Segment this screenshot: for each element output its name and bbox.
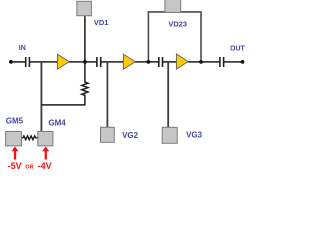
capacitor C3: [159, 57, 163, 67]
svg-text:GM5: GM5: [6, 117, 24, 126]
junction after U3: [199, 60, 203, 64]
wire U2 to C3: [135, 61, 158, 63]
amplifier U2: [123, 54, 135, 69]
pad GM4: [38, 132, 53, 146]
terminal dot IN: [9, 60, 13, 64]
wire C1 to U1: [30, 61, 58, 63]
arrow -5V supply: [12, 147, 19, 160]
svg-text:VD1: VD1: [94, 18, 109, 27]
svg-text:IN: IN: [19, 45, 26, 52]
pad VD1: [77, 1, 92, 15]
resistor R2 (between GM5 and GM4): [21, 136, 38, 140]
wire C4 to OUT: [224, 61, 243, 63]
amplifier U3: [176, 54, 188, 69]
svg-text:VD23: VD23: [168, 19, 187, 28]
svg-text:GM4: GM4: [48, 119, 66, 128]
junction after U2: [147, 60, 151, 64]
wire IN to C1: [11, 61, 25, 63]
pad VD23: [165, 0, 181, 12]
wire U1 to C2: [69, 61, 96, 63]
junction after U1: [83, 60, 87, 64]
capacitor C2: [97, 57, 101, 67]
svg-text:OR: OR: [25, 165, 33, 171]
pad VG3: [162, 127, 177, 143]
wire VG2 drop: [106, 62, 108, 127]
capacitor C1: [26, 57, 30, 67]
capacitor C4: [220, 57, 224, 67]
wire VD1 stem: [84, 16, 86, 62]
resistor R1 (drain-gate feedback): [41, 62, 88, 105]
wire VG3 drop: [167, 62, 169, 127]
wire U3 to C4: [188, 61, 219, 63]
svg-text:VG3: VG3: [186, 131, 203, 140]
pad GM5: [6, 132, 22, 146]
amplifier U1: [57, 54, 69, 69]
wire C3 to U3: [163, 61, 177, 63]
svg-text:-5V: -5V: [8, 161, 22, 171]
wire gate-bias drop to GM4: [40, 62, 42, 131]
terminal dot OUT: [241, 60, 245, 64]
svg-text:OUT: OUT: [230, 46, 246, 53]
svg-text:VG2: VG2: [122, 131, 139, 140]
pad VG2: [101, 127, 115, 142]
svg-text:-4V: -4V: [38, 161, 52, 171]
arrow -4V supply: [42, 147, 49, 160]
wire C2 to U2: [101, 61, 124, 63]
wire VD23 bus: [148, 12, 201, 62]
